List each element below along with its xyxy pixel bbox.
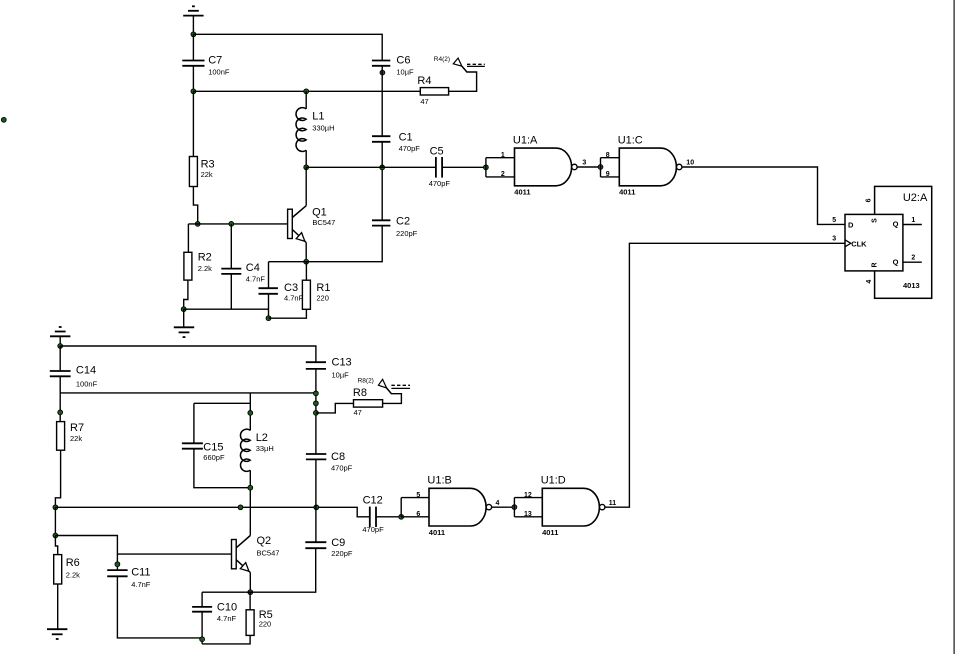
wire ground to lower top rail <box>59 336 61 346</box>
wire to R6 <box>55 536 57 555</box>
wire ground to top rail <box>192 16 194 35</box>
svg-text:3: 3 <box>832 235 836 242</box>
wire mid rail down to L2 <box>249 393 251 431</box>
wire U1:B out to U1:D in <box>492 506 515 508</box>
resistor R7 <box>57 422 84 451</box>
svg-text:C6: C6 <box>396 54 410 66</box>
wire R2 to ground rail <box>184 280 188 309</box>
NAND gate U1:C (4011 NAND) <box>606 134 694 196</box>
resistor R3 <box>189 157 214 187</box>
svg-text:4.7nF: 4.7nF <box>217 614 237 623</box>
wire C13 down to C8 <box>315 369 317 454</box>
svg-text:4: 4 <box>496 500 500 507</box>
wire input bracket U1:D <box>513 498 515 517</box>
svg-text:C4: C4 <box>246 262 260 274</box>
capacitor C10 <box>192 601 237 623</box>
wire down to C3 <box>268 262 270 289</box>
svg-text:10: 10 <box>686 160 694 167</box>
capacitor C3 <box>259 282 304 303</box>
wire to R8 <box>316 403 354 413</box>
capacitor C6 <box>372 54 414 76</box>
wire branch to C11 <box>55 536 117 571</box>
wire R3 to base rail <box>193 187 197 224</box>
svg-text:2: 2 <box>501 171 505 178</box>
junction U1:B input <box>399 514 404 519</box>
wire emitter rail to C2 bottom <box>269 226 383 262</box>
D flip-flop U2:A (4013) <box>845 186 932 298</box>
capacitor C11 <box>107 567 151 589</box>
junction U1:C input <box>598 165 603 170</box>
svg-text:2: 2 <box>911 254 915 261</box>
stray junction dot left margin <box>1 117 6 122</box>
svg-text:660pF: 660pF <box>203 453 225 462</box>
wire R6 to ground <box>57 584 59 629</box>
wire to C14 top <box>59 346 61 371</box>
svg-text:R2: R2 <box>198 252 212 264</box>
svg-text:47: 47 <box>354 408 362 417</box>
svg-text:R8(2): R8(2) <box>358 378 374 385</box>
svg-text:C11: C11 <box>131 567 150 579</box>
wire lower top rail to C13 <box>60 346 316 362</box>
wire down to lower base branch <box>54 507 56 535</box>
wire pin 12 stub <box>514 497 542 499</box>
junction collector rail / C8 column <box>314 505 319 510</box>
wire U1:D out (pin 11) to U2:A CLK <box>605 243 845 507</box>
wire R7 to rail <box>55 450 60 507</box>
capacitor C7 <box>182 54 230 76</box>
wire pin 9 stub <box>601 176 620 178</box>
wire lower mid rail <box>60 392 316 394</box>
svg-text:R7: R7 <box>70 422 84 434</box>
svg-text:4011: 4011 <box>514 188 530 197</box>
svg-text:U2:A: U2:A <box>903 192 928 204</box>
wire L2 bottom through rail to Q2 collector <box>249 470 251 535</box>
svg-text:6: 6 <box>416 511 420 518</box>
junction C3 / R1 bottom <box>266 316 271 321</box>
wire C12 to U1:B input <box>376 516 401 518</box>
wire tank rail to C2 <box>381 167 383 220</box>
wire mid rail to R4 <box>193 90 420 92</box>
svg-text:R8: R8 <box>353 387 367 399</box>
svg-text:22k: 22k <box>70 434 82 443</box>
junction L2 / C15 bottom <box>248 485 253 490</box>
capacitor C15 <box>182 442 225 462</box>
wire pin 8 stub <box>601 157 620 159</box>
power ground (top oscillator supply) <box>183 6 203 15</box>
svg-text:2.2k: 2.2k <box>66 570 80 579</box>
junction tank rail / C1 / C2 <box>380 165 385 170</box>
junction tank rail / L1 <box>304 165 309 170</box>
inductor L2 <box>240 429 273 471</box>
ground (lower oscillator) <box>47 629 67 639</box>
wire emitter to R1 top <box>305 262 307 281</box>
svg-text:12: 12 <box>524 492 532 499</box>
junction L2 top <box>248 411 253 416</box>
svg-text:9: 9 <box>606 171 610 178</box>
svg-text:Q: Q <box>893 257 899 266</box>
wire C15 left down <box>193 403 195 443</box>
junction lower top rail / C14 <box>58 344 63 349</box>
svg-text:U1:B: U1:B <box>427 475 451 487</box>
svg-text:U1:A: U1:A <box>513 134 538 146</box>
svg-text:C13: C13 <box>332 357 352 369</box>
capacitor C8 <box>306 451 353 472</box>
wire C8 to C9 <box>315 459 317 542</box>
wire C11 bottom rail <box>117 576 202 638</box>
NAND gate U1:A (4011 NAND) <box>501 134 587 196</box>
NAND gate U1:B (4011 NAND) <box>416 475 499 537</box>
capacitor C9 <box>305 537 353 558</box>
svg-text:L1: L1 <box>312 110 324 122</box>
svg-text:D: D <box>848 221 854 230</box>
svg-text:3: 3 <box>582 160 586 167</box>
svg-text:330µH: 330µH <box>312 123 334 132</box>
svg-text:1: 1 <box>501 152 505 159</box>
svg-text:CLK: CLK <box>851 240 867 249</box>
svg-text:220pF: 220pF <box>396 229 418 238</box>
wire C4 to ground rail <box>230 274 232 309</box>
wire R4 to preset switch <box>449 66 477 91</box>
junction above C11 <box>115 562 120 567</box>
svg-text:1: 1 <box>911 217 915 224</box>
wire pin 1 stub <box>486 157 515 159</box>
svg-text:R: R <box>872 262 879 267</box>
junction below C14 <box>58 410 63 415</box>
svg-text:470pF: 470pF <box>429 179 451 188</box>
wire C7 bottom to mid rail <box>192 66 194 92</box>
pin 1 wire (Q output) <box>903 224 922 226</box>
svg-text:47: 47 <box>420 97 428 106</box>
wire down to C10 <box>201 592 203 607</box>
sheet border right edge <box>953 0 955 654</box>
junction R8 branch <box>314 411 319 416</box>
junction top rail / C7 <box>191 32 196 37</box>
svg-text:10µF: 10µF <box>396 67 414 76</box>
svg-text:C14: C14 <box>76 365 96 377</box>
junction mid rail / C13 column <box>314 391 319 396</box>
svg-text:L2: L2 <box>256 432 268 444</box>
svg-text:470pF: 470pF <box>331 464 353 473</box>
svg-text:220pF: 220pF <box>331 549 353 558</box>
preset adjust symbol R4(2) <box>434 56 485 72</box>
svg-text:C10: C10 <box>217 601 237 613</box>
junction emitter node Q2 <box>248 590 253 595</box>
svg-text:4.7nF: 4.7nF <box>246 274 266 283</box>
capacitor C4 <box>221 262 265 283</box>
junction ground rail / R2 <box>181 307 186 312</box>
wire C10 bottom <box>201 612 203 644</box>
wire pin 5 stub <box>401 497 429 499</box>
power ground (lower oscillator supply) <box>50 327 70 336</box>
wire pin 2 stub <box>486 176 515 178</box>
wire to C7 top <box>192 34 194 60</box>
wire bottom to R1 <box>269 309 307 318</box>
wire input bracket U1:B <box>400 498 402 517</box>
svg-text:8: 8 <box>606 152 610 159</box>
wire emitter to R5 top <box>249 592 251 610</box>
capacitor C2 <box>372 216 418 239</box>
svg-text:C7: C7 <box>208 54 222 66</box>
capacitor C1 <box>372 132 420 154</box>
svg-text:220: 220 <box>316 294 329 303</box>
wire ground rail <box>184 308 269 310</box>
junction R6 / C11 branch <box>53 533 58 538</box>
junction mid rail / L1 <box>304 89 309 94</box>
wire U1:A out to U1:C in <box>577 166 600 168</box>
svg-text:4011: 4011 <box>619 188 635 197</box>
wire C1 to tank rail <box>381 142 383 168</box>
transistor Q1 (BC547) <box>288 206 336 243</box>
svg-text:10µF: 10µF <box>332 370 350 379</box>
svg-text:4011: 4011 <box>429 528 445 537</box>
wire emitter rail to C9 bottom <box>202 549 316 593</box>
svg-text:C1: C1 <box>399 132 413 144</box>
wire pin 13 stub <box>514 516 542 518</box>
NAND gate U1:D (4011 NAND) <box>524 475 616 537</box>
wire Q1 collector to tank rail <box>305 167 307 205</box>
wire R8 to preset switch <box>383 388 402 403</box>
wire Q1 emitter down <box>305 243 307 262</box>
pin 2 wire (Qbar output) <box>903 261 922 263</box>
resistor R2 <box>184 252 212 281</box>
wire input bracket U1:A <box>485 158 487 177</box>
svg-text:C3: C3 <box>284 282 298 294</box>
capacitor C5 <box>429 145 451 188</box>
svg-text:R4: R4 <box>417 75 431 87</box>
svg-text:11: 11 <box>609 500 617 507</box>
junction collector rail near L2 <box>238 505 243 510</box>
svg-text:470pF: 470pF <box>399 144 421 153</box>
svg-text:4013: 4013 <box>903 281 920 290</box>
svg-text:C2: C2 <box>396 216 410 228</box>
svg-text:U1:D: U1:D <box>541 475 566 487</box>
capacitor C14 <box>50 365 98 389</box>
svg-text:C5: C5 <box>430 145 444 157</box>
ground (top oscillator) <box>174 327 194 337</box>
wire tank rail to C5 <box>306 166 436 168</box>
wire to L1 top <box>305 91 307 109</box>
wire C14 bottom to R7 <box>59 376 61 421</box>
wire mid rail down to R3 <box>192 91 194 156</box>
wire collector rail to C12 <box>55 507 369 517</box>
svg-text:U1:C: U1:C <box>618 134 643 146</box>
capacitor C13 <box>306 357 352 380</box>
junction below C6 <box>380 70 385 75</box>
svg-text:S: S <box>872 218 879 223</box>
transistor Q2 (BC547) <box>232 535 280 572</box>
svg-text:4.7nF: 4.7nF <box>131 580 151 589</box>
wire C15 top bracket <box>194 402 250 404</box>
svg-text:6: 6 <box>866 198 873 202</box>
inductor L1 <box>296 108 335 152</box>
junction base rail / R3 <box>195 222 200 227</box>
svg-text:100nF: 100nF <box>76 379 98 388</box>
svg-text:Q: Q <box>893 219 899 228</box>
svg-text:5: 5 <box>416 492 420 499</box>
wire bottom to R5 <box>202 635 250 644</box>
svg-text:33µH: 33µH <box>256 444 274 453</box>
svg-text:4011: 4011 <box>542 528 558 537</box>
svg-text:R4(2): R4(2) <box>434 56 450 63</box>
wire C15 bottom bracket <box>194 449 250 488</box>
svg-text:Q1: Q1 <box>312 206 327 218</box>
resistor R6 <box>54 555 80 584</box>
svg-text:R1: R1 <box>316 282 330 294</box>
wire U1:C out (pin 10) to U2:A D input <box>682 167 845 224</box>
wire top rail to C6 <box>193 34 382 60</box>
svg-text:BC547: BC547 <box>312 218 335 227</box>
capacitor C12 <box>362 494 384 534</box>
wire base rail to Q1 <box>188 223 287 225</box>
wire C5 to U1:A input <box>442 166 486 168</box>
junction U1:A input <box>484 165 489 170</box>
wire to ground symbol <box>183 309 185 327</box>
svg-text:BC547: BC547 <box>257 548 280 557</box>
wire input bracket U1:C <box>600 158 602 177</box>
wire Q2 emitter down <box>249 573 251 593</box>
wire down to C4 <box>230 224 232 269</box>
preset adjust symbol R8(2) <box>358 378 410 394</box>
junction collector rail / R7 <box>53 505 58 510</box>
svg-text:R6: R6 <box>66 557 80 569</box>
wire C6 through mid rail to C1 <box>381 66 383 136</box>
junction base rail / C4 <box>229 222 234 227</box>
svg-text:2.2k: 2.2k <box>198 264 212 273</box>
svg-text:Q2: Q2 <box>257 535 272 547</box>
junction U1:D input <box>512 505 517 510</box>
resistor R1 <box>302 280 330 309</box>
svg-text:5: 5 <box>832 217 836 224</box>
wire C3 bottom <box>268 294 270 318</box>
wire L1 bottom to tank rail <box>305 150 307 167</box>
svg-text:220: 220 <box>259 620 272 629</box>
svg-text:C8: C8 <box>331 451 345 463</box>
svg-text:C12: C12 <box>363 494 383 506</box>
junction mid rail / C7 / R3 <box>191 89 196 94</box>
svg-text:C15: C15 <box>203 442 223 454</box>
junction C10 / C11 rail <box>200 637 205 642</box>
svg-text:22k: 22k <box>201 170 213 179</box>
junction emitter node Q1 <box>304 259 309 264</box>
wire base rail to Q2 <box>117 553 231 555</box>
svg-text:4: 4 <box>866 280 873 284</box>
svg-text:C9: C9 <box>331 537 345 549</box>
svg-text:4.7nF: 4.7nF <box>284 294 304 303</box>
resistor R5 <box>246 609 273 636</box>
resistor R8 <box>353 387 383 417</box>
resistor R4 <box>417 75 448 106</box>
svg-text:13: 13 <box>524 511 532 518</box>
wire pin 6 stub <box>401 516 429 518</box>
svg-text:470pF: 470pF <box>362 525 384 534</box>
svg-text:100nF: 100nF <box>208 67 230 76</box>
wire base rail down to R2 <box>187 224 189 252</box>
svg-text:R3: R3 <box>201 158 215 170</box>
junction R8 branch upper <box>314 401 319 406</box>
